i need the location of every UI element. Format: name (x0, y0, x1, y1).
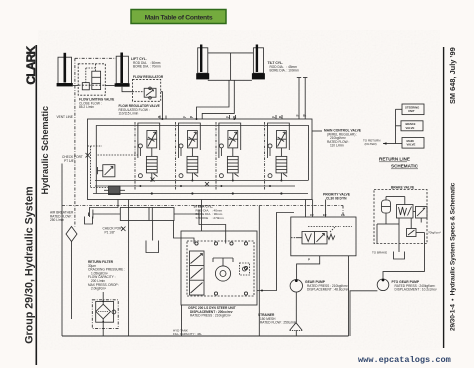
brake valve enclosure (374, 186, 427, 244)
air breather label (50, 211, 74, 223)
check port PT label (62, 155, 83, 163)
svg-text:EF: EF (323, 213, 327, 217)
tilt crossover wires (197, 53, 254, 119)
LS sensing dash-dot wire (62, 206, 343, 218)
return filter label (88, 260, 125, 291)
PTO gear pump label (392, 280, 438, 292)
svg-text:2.0kgf/cm²: 2.0kgf/cm² (91, 287, 106, 291)
svg-text:Main Table of Contents: Main Table of Contents (145, 14, 213, 21)
lift line wire (73, 85, 163, 119)
svg-text:RETURN LINE: RETURN LINE (379, 157, 410, 162)
svg-text:RATED PRESS : 210kgf/cm²: RATED PRESS : 210kgf/cm² (190, 314, 231, 318)
svg-text:DISPLACEMENT : 48.8cc/rev: DISPLACEMENT : 48.8cc/rev (307, 288, 350, 292)
svg-text:70kgf/cm²: 70kgf/cm² (428, 231, 441, 235)
tank symbol (brake return) (394, 252, 405, 260)
steer cylinder (93, 208, 199, 221)
gear pump label (305, 280, 350, 292)
svg-text:DISPLACEMENT : 10.2cc/rev: DISPLACEMENT : 10.2cc/rev (395, 288, 438, 292)
svg-text:LS: LS (341, 213, 345, 217)
PTO gear pump (377, 279, 389, 291)
hydraulic tank label (173, 329, 202, 337)
brake valve internal wires (386, 213, 425, 272)
svg-text:29/30-1-4 • Hydraulic System: 29/30-1-4 • Hydraulic System Specs & Sch… (450, 182, 457, 331)
lift cylinder 1 (57, 53, 73, 87)
tilt cylinder label (268, 61, 300, 73)
svg-text:P: P (158, 115, 160, 119)
PTO pump discharge wire (383, 272, 425, 279)
tilt cylinder right (252, 45, 265, 80)
flow regulator label (119, 104, 160, 116)
valve section 4 (aux spool) (265, 122, 290, 190)
steer cylinder label (194, 205, 225, 220)
svg-text:FLOW REGULATOR: FLOW REGULATOR (133, 75, 164, 79)
svg-text:VENT LINE: VENT LINE (57, 115, 73, 119)
svg-text:STROKE : 270mm: STROKE : 270mm (196, 216, 225, 220)
svg-text:www.epcatalogs.com: www.epcatalogs.com (358, 355, 451, 365)
svg-text:P1 1/8”: P1 1/8” (105, 230, 115, 234)
aux port B4 (303, 78, 307, 120)
check port P1 symbol (121, 227, 126, 232)
return drop wires (129, 200, 260, 337)
priority port labels (308, 213, 345, 261)
svg-text:PT 1/8”: PT 1/8” (64, 159, 74, 163)
tank return wire (348, 256, 350, 336)
return filter (92, 292, 118, 336)
bus cross marks (151, 178, 155, 182)
brake line arrow (377, 224, 386, 244)
svg-text:BORE DIA. : 100mm: BORE DIA. : 100mm (270, 69, 300, 73)
tank bus wires (93, 181, 308, 194)
svg-text:RATED FLOW : 250L/min: RATED FLOW : 250L/min (260, 321, 297, 325)
tank bottom wire (62, 335, 349, 337)
tilt cylinder left (196, 45, 209, 80)
valve section 3 (aux spool) (216, 122, 241, 190)
svg-text:110 L/min: 110 L/min (330, 144, 344, 148)
steer hoses (153, 214, 226, 244)
check port PT symbol (62, 153, 90, 336)
CF wire to steer unit (90, 200, 326, 232)
svg-text:85.2 L/min: 85.2 L/min (79, 105, 94, 109)
svg-text:P: P (308, 257, 310, 261)
flow regulator valve (dashed enclosure) (133, 75, 164, 101)
vent line (dash-dot) (75, 58, 116, 226)
valve section 2 (tilt spool) (176, 122, 201, 190)
pilot reducing valve (104, 186, 125, 195)
block inner housing border (96, 126, 308, 194)
right margin rule (443, 47, 445, 348)
PTO pump suction wire (350, 291, 377, 336)
pilot dash lines (88, 146, 139, 188)
flow limiting valve label (79, 98, 114, 110)
gear pump (290, 279, 302, 292)
return line mini-diagram: main valve box (402, 138, 424, 149)
svg-text:SM 648, July ’99: SM 648, July ’99 (448, 47, 457, 104)
main relief valve (98, 165, 115, 177)
svg-text:TO BRAKE: TO BRAKE (372, 251, 387, 255)
main table of contents button (131, 10, 226, 24)
svg-text:(FILTER): (FILTER) (365, 142, 377, 146)
leader wire to label (312, 130, 322, 132)
return line mini-diagram: steering unit box (402, 104, 424, 115)
main control valve block outline (88, 119, 313, 200)
return line mini-diagram wires (383, 109, 402, 145)
svg-text:CL30 08 DYN: CL30 08 DYN (326, 196, 347, 200)
svg-text:110/115 L/min: 110/115 L/min (119, 112, 139, 116)
svg-text:250 L/min: 250 L/min (50, 218, 64, 222)
main control valve label (324, 129, 362, 148)
CLARK logo (24, 45, 38, 365)
return line schematic caption (379, 157, 419, 169)
svg-text:CF: CF (310, 213, 314, 217)
lift cylinder 2 (115, 53, 130, 87)
svg-text:BRAKE VALVE: BRAKE VALVE (391, 186, 415, 190)
brake charge valve (397, 197, 414, 219)
port tick marks above block (160, 115, 282, 119)
OSPC label (188, 306, 236, 318)
svg-text:SCHEMATIC: SCHEMATIC (391, 164, 419, 169)
brake pressure switch (407, 218, 417, 237)
svg-text:VALVE: VALVE (406, 126, 415, 130)
valve section 1 (lift spool) (135, 122, 160, 190)
lift cylinder label (131, 57, 161, 68)
svg-text:BORE DIA. : 70mm: BORE DIA. : 70mm (133, 64, 161, 68)
aux port A4 (297, 78, 301, 120)
OSPC steering unit (181, 231, 257, 305)
bus junction dots (139, 118, 282, 195)
brake modulating valve (413, 207, 427, 219)
svg-text:Group 29/30, Hydraulic System: Group 29/30, Hydraulic System (23, 186, 35, 343)
strainer label (258, 313, 297, 325)
pump pressure wire (297, 256, 320, 280)
tank symbol (steer return) (146, 241, 159, 253)
brake accumulator (382, 197, 398, 214)
svg-text:Hydraulic Schematic: Hydraulic Schematic (40, 106, 50, 195)
svg-text:UNIT: UNIT (408, 109, 415, 113)
steering EF wire (257, 213, 294, 292)
flow limiting valve (dashed enclosure) (78, 64, 105, 95)
svg-text:FILL CAPACITY : 46L: FILL CAPACITY : 46L (173, 332, 202, 336)
air breather (66, 227, 77, 320)
strainer (290, 292, 303, 336)
port labels row (158, 114, 307, 120)
return line mini-diagram: brake valve box (401, 121, 423, 131)
priority valve label (323, 193, 351, 201)
svg-text:VALVE: VALVE (407, 143, 416, 147)
check port P1 label (103, 227, 124, 235)
steer tank stub (85, 213, 93, 225)
priority valve (291, 217, 356, 256)
to return label (363, 139, 380, 147)
